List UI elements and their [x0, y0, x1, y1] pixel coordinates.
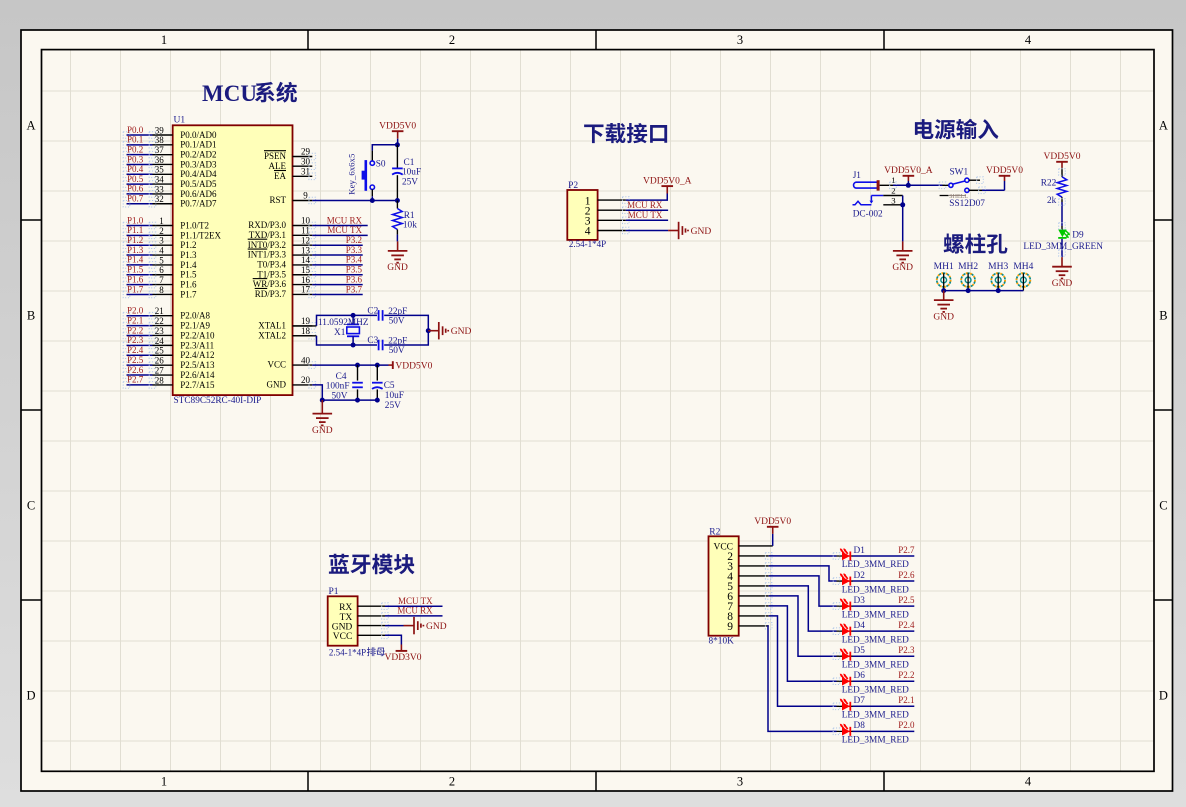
- svg-text:P2.4/A12: P2.4/A12: [180, 350, 214, 360]
- svg-text:LED_3MM_RED: LED_3MM_RED: [842, 736, 909, 746]
- svg-text:LED_3MM_RED: LED_3MM_RED: [842, 560, 909, 570]
- svg-text:2.54-1*4P: 2.54-1*4P: [569, 239, 606, 249]
- svg-text:50V: 50V: [389, 346, 405, 356]
- svg-text:16: 16: [301, 275, 311, 285]
- svg-text:GND: GND: [426, 622, 447, 632]
- svg-text:50V: 50V: [389, 317, 405, 327]
- svg-text:31: 31: [301, 167, 310, 177]
- svg-text:RD/P3.7: RD/P3.7: [255, 289, 287, 299]
- svg-text:9: 9: [727, 621, 733, 633]
- svg-text:P1.2: P1.2: [180, 240, 196, 250]
- svg-text:STC89C52RC-40I-DIP: STC89C52RC-40I-DIP: [174, 396, 262, 406]
- svg-text:25V: 25V: [385, 401, 401, 411]
- svg-text:P1.3: P1.3: [180, 250, 197, 260]
- svg-text:MCU TX: MCU TX: [327, 225, 362, 235]
- svg-text:Key_6x6x5: Key_6x6x5: [347, 153, 357, 195]
- svg-text:P2.3: P2.3: [127, 335, 144, 345]
- svg-text:2.54-1*4P: 2.54-1*4P: [329, 647, 366, 657]
- svg-text:P2.1: P2.1: [127, 315, 143, 325]
- svg-text:S0: S0: [376, 160, 386, 170]
- svg-text:GND: GND: [312, 426, 333, 436]
- svg-text:25V: 25V: [402, 177, 418, 187]
- svg-text:2k: 2k: [1047, 196, 1057, 206]
- svg-text:18: 18: [301, 326, 311, 336]
- svg-text:C5: C5: [384, 381, 395, 391]
- svg-text:100nF: 100nF: [326, 382, 350, 392]
- svg-text:D5: D5: [854, 646, 866, 656]
- svg-text:VCC: VCC: [333, 632, 353, 642]
- svg-text:P0.4/AD4: P0.4/AD4: [180, 169, 217, 179]
- svg-text:XTAL2: XTAL2: [258, 330, 286, 340]
- svg-text:C: C: [27, 498, 35, 512]
- svg-text:MCU: MCU: [202, 81, 257, 106]
- svg-text:C4: C4: [336, 372, 347, 382]
- svg-text:P3.2: P3.2: [346, 235, 362, 245]
- svg-text:D: D: [26, 688, 35, 702]
- svg-text:LED_3MM_RED: LED_3MM_RED: [842, 635, 909, 645]
- svg-text:INT1/P3.3: INT1/P3.3: [248, 250, 287, 260]
- svg-text:P0.0: P0.0: [127, 125, 144, 135]
- svg-text:20: 20: [301, 375, 311, 385]
- svg-text:3: 3: [159, 236, 164, 246]
- svg-text:GND: GND: [1052, 279, 1073, 289]
- svg-text:15: 15: [301, 265, 311, 275]
- svg-text:VDD5V0: VDD5V0: [395, 361, 432, 371]
- svg-text:4: 4: [585, 226, 591, 238]
- svg-text:WR/P3.6: WR/P3.6: [253, 279, 287, 289]
- svg-text:D4: D4: [854, 621, 866, 631]
- svg-text:P1.0: P1.0: [127, 215, 144, 225]
- svg-text:LED_3MM_RED: LED_3MM_RED: [842, 660, 909, 670]
- svg-text:VDD5V0: VDD5V0: [754, 517, 791, 527]
- svg-text:VDD5V0: VDD5V0: [986, 166, 1023, 176]
- svg-text:8*10K: 8*10K: [709, 637, 735, 647]
- svg-text:RX: RX: [339, 603, 352, 613]
- svg-text:2: 2: [449, 775, 455, 789]
- svg-text:19: 19: [301, 316, 311, 326]
- svg-text:P2.3: P2.3: [898, 645, 915, 655]
- svg-text:EA: EA: [274, 171, 286, 181]
- svg-text:P2.0/A8: P2.0/A8: [180, 311, 210, 321]
- svg-text:1: 1: [159, 216, 164, 226]
- svg-text:P1.6: P1.6: [127, 274, 144, 284]
- svg-text:LED_3MM_RED: LED_3MM_RED: [842, 585, 909, 595]
- svg-text:12: 12: [301, 235, 310, 245]
- svg-text:LED_3MM_GREEN: LED_3MM_GREEN: [1023, 242, 1103, 252]
- svg-text:4: 4: [1025, 33, 1032, 47]
- svg-text:P1.1: P1.1: [127, 225, 143, 235]
- svg-text:P3.3: P3.3: [346, 245, 363, 255]
- svg-text:P3.6: P3.6: [346, 274, 363, 284]
- svg-text:GND: GND: [933, 312, 954, 322]
- svg-text:P0.5/AD5: P0.5/AD5: [180, 179, 217, 189]
- svg-text:5: 5: [159, 255, 164, 265]
- svg-text:9: 9: [303, 191, 308, 201]
- svg-text:D2: D2: [854, 571, 866, 581]
- svg-text:XTAL1: XTAL1: [258, 321, 286, 331]
- svg-text:MCU RX: MCU RX: [327, 215, 363, 225]
- svg-text:P2.3/A11: P2.3/A11: [180, 340, 214, 350]
- svg-text:D8: D8: [854, 721, 866, 731]
- svg-text:P2.7/A15: P2.7/A15: [180, 380, 215, 390]
- svg-text:40: 40: [301, 355, 311, 365]
- svg-text:D9: D9: [1072, 231, 1084, 241]
- svg-text:GND: GND: [892, 263, 913, 273]
- svg-text:SS12D07: SS12D07: [949, 199, 985, 209]
- svg-text:1: 1: [891, 175, 895, 185]
- svg-text:P0.1: P0.1: [127, 135, 143, 145]
- svg-text:SW1: SW1: [950, 168, 969, 178]
- svg-text:INT0/P3.2: INT0/P3.2: [248, 240, 286, 250]
- svg-text:8: 8: [159, 285, 164, 295]
- svg-text:D3: D3: [854, 596, 866, 606]
- svg-text:P2.6: P2.6: [898, 570, 915, 580]
- svg-text:MH2: MH2: [958, 262, 978, 272]
- svg-text:P0.1/AD1: P0.1/AD1: [180, 140, 216, 150]
- svg-text:MCU RX: MCU RX: [627, 200, 663, 210]
- svg-text:A: A: [1159, 118, 1168, 132]
- svg-text:U1: U1: [174, 116, 186, 126]
- svg-text:11.0592MHZ: 11.0592MHZ: [318, 318, 369, 328]
- svg-text:P2.7: P2.7: [127, 375, 144, 385]
- svg-text:VDD3V0: VDD3V0: [385, 653, 422, 663]
- svg-text:30: 30: [301, 156, 311, 166]
- svg-text:C3: C3: [367, 336, 378, 346]
- svg-text:P1.4: P1.4: [180, 260, 197, 270]
- svg-text:B: B: [1159, 308, 1167, 322]
- svg-text:2: 2: [449, 33, 455, 47]
- svg-text:P0.7/AD7: P0.7/AD7: [180, 199, 217, 209]
- svg-text:VCC: VCC: [267, 360, 286, 370]
- svg-text:10uF: 10uF: [385, 391, 404, 401]
- svg-text:22pF: 22pF: [388, 337, 407, 347]
- svg-text:P3.7: P3.7: [346, 284, 363, 294]
- svg-text:MCU RX: MCU RX: [397, 606, 433, 616]
- svg-text:MH1: MH1: [934, 262, 954, 272]
- svg-text:10k: 10k: [403, 220, 417, 230]
- svg-text:P1.1/T2EX: P1.1/T2EX: [180, 230, 221, 240]
- svg-text:T0/P3.4: T0/P3.4: [257, 260, 286, 270]
- svg-text:P0.6: P0.6: [127, 184, 144, 194]
- svg-text:P1.5: P1.5: [180, 270, 197, 280]
- svg-text:T1/P3.5: T1/P3.5: [257, 269, 286, 279]
- svg-text:29: 29: [301, 147, 311, 157]
- svg-text:P2.6/A14: P2.6/A14: [180, 370, 215, 380]
- svg-text:P2.5: P2.5: [127, 355, 144, 365]
- svg-text:VDD5V0: VDD5V0: [379, 122, 416, 132]
- svg-text:22pF: 22pF: [388, 307, 407, 317]
- svg-text:P2.2: P2.2: [127, 325, 143, 335]
- svg-text:RST: RST: [269, 195, 286, 205]
- svg-text:A: A: [26, 118, 35, 132]
- svg-text:P2.7: P2.7: [898, 545, 915, 555]
- svg-text:P2.5/A13: P2.5/A13: [180, 360, 215, 370]
- svg-text:LED_3MM_RED: LED_3MM_RED: [842, 711, 909, 721]
- svg-text:P0.3: P0.3: [127, 154, 144, 164]
- svg-text:X1: X1: [334, 328, 346, 338]
- svg-text:D1: D1: [854, 546, 866, 556]
- svg-text:3: 3: [737, 33, 743, 47]
- svg-text:R2: R2: [709, 527, 720, 537]
- svg-text:14: 14: [301, 255, 311, 265]
- svg-text:C2: C2: [367, 307, 378, 317]
- svg-text:1: 1: [161, 33, 167, 47]
- svg-text:1: 1: [161, 775, 167, 789]
- svg-text:MCU TX: MCU TX: [628, 210, 663, 220]
- svg-text:P1.7: P1.7: [127, 284, 144, 294]
- svg-text:LED_3MM_RED: LED_3MM_RED: [842, 610, 909, 620]
- svg-text:LED_3MM_RED: LED_3MM_RED: [842, 685, 909, 695]
- svg-text:GND: GND: [691, 227, 712, 237]
- svg-text:P1.2: P1.2: [127, 235, 143, 245]
- svg-text:P0.4: P0.4: [127, 164, 144, 174]
- svg-text:MH4: MH4: [1013, 262, 1033, 272]
- svg-text:11: 11: [301, 226, 310, 236]
- svg-text:GND: GND: [451, 327, 472, 337]
- svg-text:P3.4: P3.4: [346, 255, 363, 265]
- svg-text:17: 17: [301, 285, 311, 295]
- svg-text:3: 3: [737, 775, 743, 789]
- svg-text:D6: D6: [854, 671, 866, 681]
- svg-text:P1.6: P1.6: [180, 280, 197, 290]
- svg-text:P2.2/A10: P2.2/A10: [180, 330, 215, 340]
- svg-text:P2.1: P2.1: [898, 695, 914, 705]
- svg-text:P3.5: P3.5: [346, 265, 363, 275]
- svg-text:J1: J1: [853, 171, 862, 181]
- svg-text:MCU TX: MCU TX: [398, 596, 433, 606]
- svg-text:P0.7: P0.7: [127, 194, 144, 204]
- svg-text:RXD/P3.0: RXD/P3.0: [248, 220, 286, 230]
- svg-text:13: 13: [301, 245, 311, 255]
- svg-text:ALE: ALE: [269, 161, 287, 171]
- svg-text:VDD5V0_A: VDD5V0_A: [643, 177, 692, 187]
- svg-text:D7: D7: [854, 696, 866, 706]
- svg-text:10uF: 10uF: [402, 168, 421, 178]
- svg-text:R22: R22: [1041, 178, 1057, 188]
- svg-text:P1.5: P1.5: [127, 265, 144, 275]
- svg-text:P2.0: P2.0: [127, 306, 144, 316]
- svg-text:VDD5V0: VDD5V0: [1044, 152, 1081, 162]
- svg-text:B: B: [27, 308, 35, 322]
- svg-text:P1.0/T2: P1.0/T2: [180, 220, 209, 230]
- svg-text:C: C: [1159, 498, 1167, 512]
- svg-text:P2.4: P2.4: [898, 620, 915, 630]
- svg-text:P1.4: P1.4: [127, 255, 144, 265]
- svg-text:7: 7: [159, 275, 164, 285]
- svg-text:GND: GND: [267, 380, 287, 390]
- svg-text:P0.6/AD6: P0.6/AD6: [180, 189, 217, 199]
- svg-text:P0.2/AD2: P0.2/AD2: [180, 150, 216, 160]
- svg-text:GND: GND: [387, 263, 408, 273]
- svg-text:P2.1/A9: P2.1/A9: [180, 320, 210, 330]
- svg-text:4: 4: [1025, 775, 1032, 789]
- svg-text:2: 2: [891, 185, 895, 195]
- svg-text:P1: P1: [329, 587, 339, 597]
- svg-text:P0.3/AD3: P0.3/AD3: [180, 159, 217, 169]
- svg-text:P2.4: P2.4: [127, 345, 144, 355]
- svg-text:D: D: [1159, 688, 1168, 702]
- svg-text:GND: GND: [332, 623, 353, 633]
- svg-text:TXD/P3.1: TXD/P3.1: [249, 230, 286, 240]
- svg-text:DC-002: DC-002: [853, 209, 883, 219]
- svg-text:P2: P2: [568, 181, 578, 191]
- svg-text:P2.2: P2.2: [898, 670, 914, 680]
- svg-text:TX: TX: [340, 613, 353, 623]
- svg-text:MH3: MH3: [988, 262, 1008, 272]
- svg-text:10: 10: [301, 216, 311, 226]
- svg-text:4: 4: [159, 245, 164, 255]
- svg-text:6: 6: [159, 265, 164, 275]
- svg-text:PSEN: PSEN: [264, 151, 287, 161]
- svg-text:P2.0: P2.0: [898, 720, 915, 730]
- svg-text:C1: C1: [404, 158, 415, 168]
- svg-text:P1.3: P1.3: [127, 245, 144, 255]
- svg-text:P0.0/AD0: P0.0/AD0: [180, 130, 217, 140]
- svg-text:P1.7: P1.7: [180, 289, 197, 299]
- svg-text:P2.6: P2.6: [127, 365, 144, 375]
- svg-text:2: 2: [159, 226, 164, 236]
- svg-text:P0.5: P0.5: [127, 174, 144, 184]
- svg-text:P0.2: P0.2: [127, 144, 143, 154]
- svg-text:P2.5: P2.5: [898, 595, 915, 605]
